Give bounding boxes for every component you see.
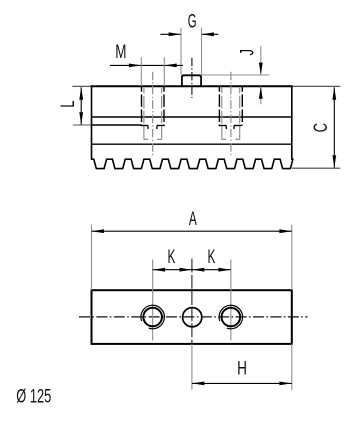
svg-text:H: H bbox=[237, 357, 247, 379]
svg-text:G: G bbox=[188, 12, 197, 33]
svg-text:K: K bbox=[167, 246, 175, 268]
svg-text:K: K bbox=[208, 246, 216, 268]
svg-text:J: J bbox=[236, 49, 258, 55]
svg-text:L: L bbox=[56, 101, 78, 108]
svg-text:C: C bbox=[309, 123, 331, 132]
svg-text:Ø 125: Ø 125 bbox=[16, 385, 51, 407]
svg-text:M: M bbox=[115, 41, 126, 63]
svg-text:A: A bbox=[189, 208, 197, 230]
